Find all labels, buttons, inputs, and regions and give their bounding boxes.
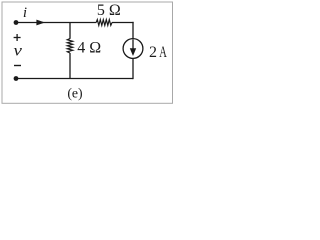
wire (top-right corner down to current source) [132,22,134,39]
svg-text:i: i [23,5,27,21]
wire (4-ohm branch, upper lead) [69,23,71,39]
resistor 5 ohm (horizontal zigzag) [96,20,112,26]
wire (bottom return) [16,78,133,80]
wire (current source to bottom-right corner) [132,58,134,79]
current source arrow shaft [132,40,134,51]
label - (voltage polarity) [14,65,21,67]
svg-text:4 Ω: 4 Ω [77,39,101,56]
svg-text:A: A [159,44,167,61]
svg-text:5 Ω: 5 Ω [97,2,121,19]
current source arrowhead (down) [130,48,136,56]
wire (4-ohm branch, lower lead) [69,53,71,79]
svg-text:(e): (e) [67,85,82,101]
resistor 4 ohm (vertical zigzag) [67,39,72,53]
svg-text:v: v [14,42,23,59]
label + (voltage polarity) [14,34,21,41]
current arrow i on top wire [36,20,45,26]
wire (5-ohm to top-right corner) [112,22,134,24]
node A (top-left terminal dot) [14,20,19,25]
border frame [2,2,173,103]
node B (bottom-left terminal dot) [14,76,19,81]
svg-text:2: 2 [149,44,157,61]
current source U1 (circle) [123,39,143,59]
wire (top, terminal to 5-ohm resistor) [16,22,96,24]
